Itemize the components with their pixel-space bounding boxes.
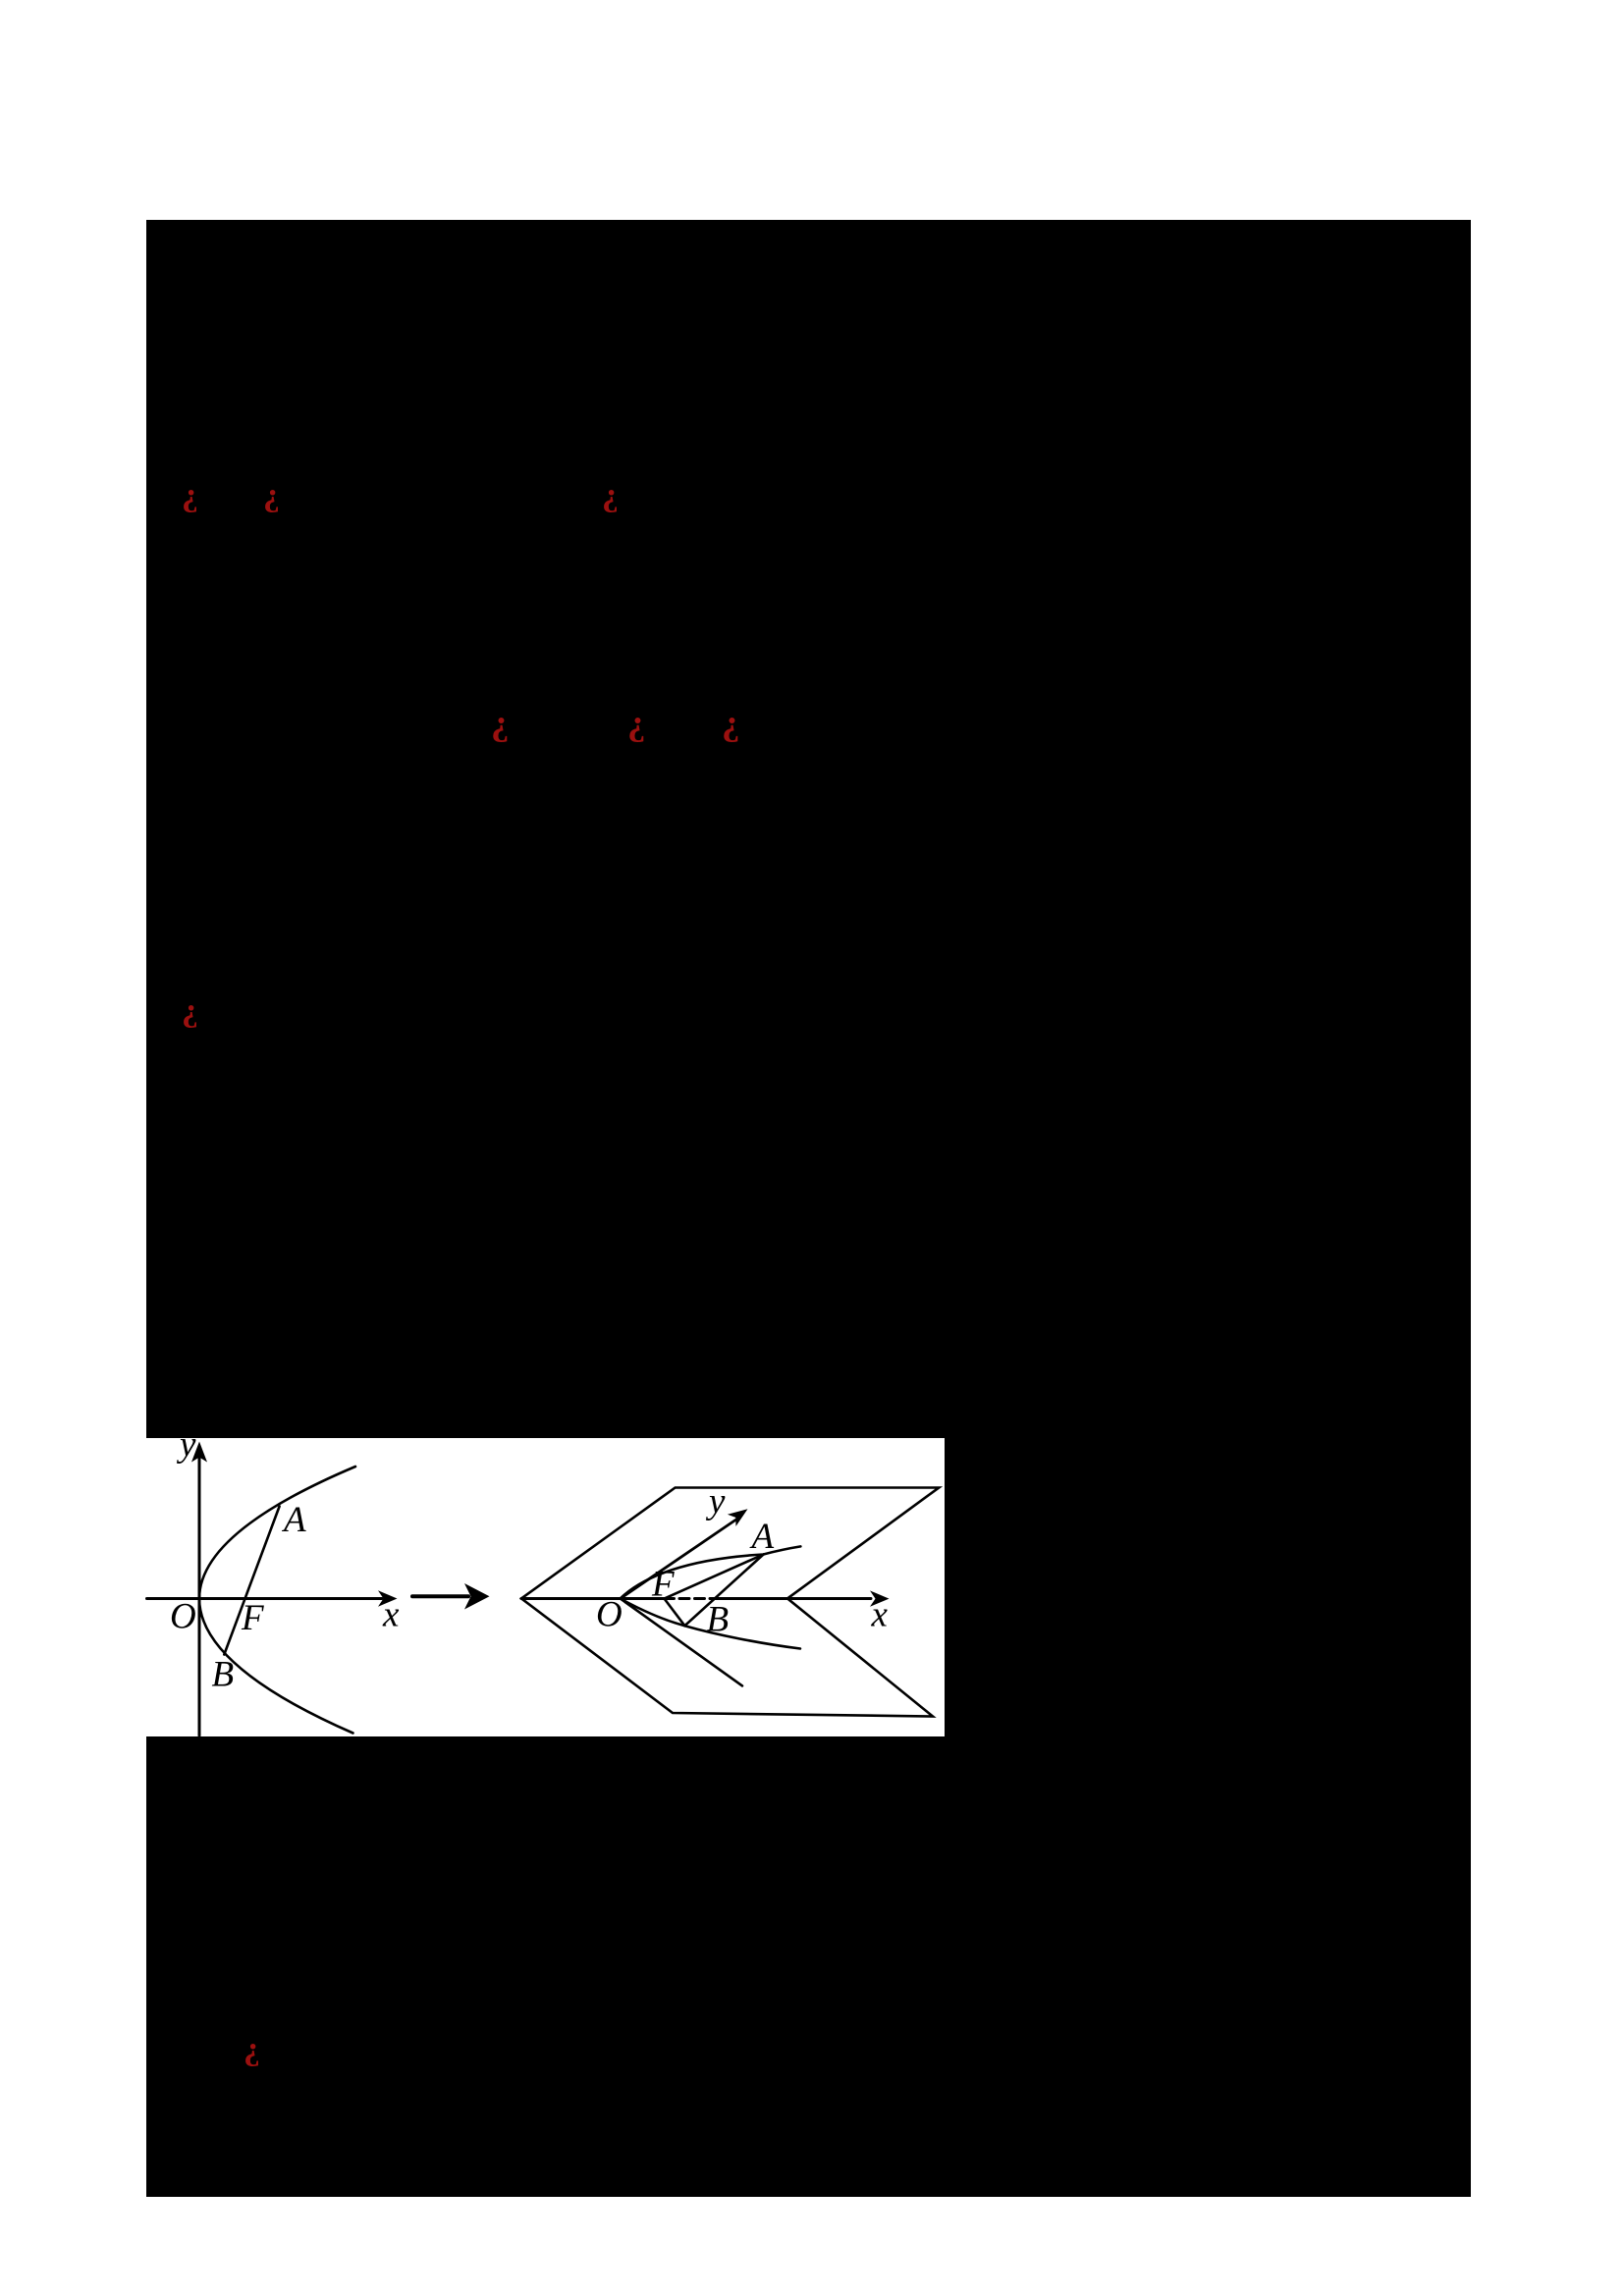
- red placeholder mark 4 (row 2): [491, 705, 510, 741]
- parabola lower branch: [199, 1599, 353, 1734]
- svg-text:x: x: [871, 1595, 889, 1635]
- x-axis arrowhead: [378, 1590, 398, 1606]
- svg-text:B: B: [707, 1600, 730, 1640]
- folded negative y direction from O: [621, 1599, 742, 1686]
- svg-text:O: O: [596, 1595, 623, 1635]
- svg-text:y: y: [176, 1424, 196, 1465]
- svg-text:O: O: [170, 1597, 196, 1637]
- svg-text:F: F: [241, 1598, 264, 1638]
- x-axis line: [147, 1597, 383, 1600]
- red placeholder mark 5 (row 2): [627, 705, 646, 741]
- svg-text:A: A: [749, 1517, 775, 1557]
- y-axis line: [198, 1457, 201, 1735]
- labels left figure: [170, 1424, 400, 1695]
- svg-text:A: A: [281, 1500, 306, 1540]
- parabola upper branch (in tilted plane) O to A and beyond: [621, 1546, 801, 1598]
- white figure strip: [146, 1438, 945, 1736]
- segment A-B: [684, 1555, 763, 1627]
- svg-text:x: x: [382, 1595, 400, 1635]
- red placeholder mark 7 (row 3): [182, 994, 198, 1028]
- folded-plane outline: [521, 1488, 939, 1717]
- x-axis solid right part: [719, 1597, 872, 1600]
- x-axis dashed hidden part: [665, 1597, 719, 1600]
- y-axis arrowhead: [728, 1509, 748, 1526]
- segment F-B: [665, 1599, 685, 1627]
- red placeholder mark 6 (row 2): [722, 705, 740, 741]
- parabola lower branch O through B and beyond: [621, 1599, 800, 1649]
- svg-text:y: y: [705, 1481, 726, 1522]
- segment A-F: [665, 1555, 764, 1599]
- red placeholder mark 2 (row 1): [263, 479, 280, 512]
- black redaction rectangle: [146, 220, 1471, 2197]
- y-axis (oblique): [621, 1521, 735, 1599]
- parabola upper branch: [199, 1467, 355, 1599]
- red placeholder mark 3 (row 1): [602, 479, 619, 512]
- x-axis arrowhead: [870, 1590, 890, 1606]
- labels right figure: [596, 1481, 889, 1640]
- svg-text:B: B: [212, 1655, 235, 1695]
- chord A-B through focus F: [224, 1507, 279, 1655]
- red placeholder mark 1 (row 1): [182, 479, 198, 512]
- x-axis solid left part: [521, 1597, 665, 1600]
- red placeholder mark 8 (bottom row): [244, 2033, 260, 2066]
- svg-text:F: F: [651, 1565, 675, 1605]
- y-axis arrowhead: [191, 1442, 207, 1463]
